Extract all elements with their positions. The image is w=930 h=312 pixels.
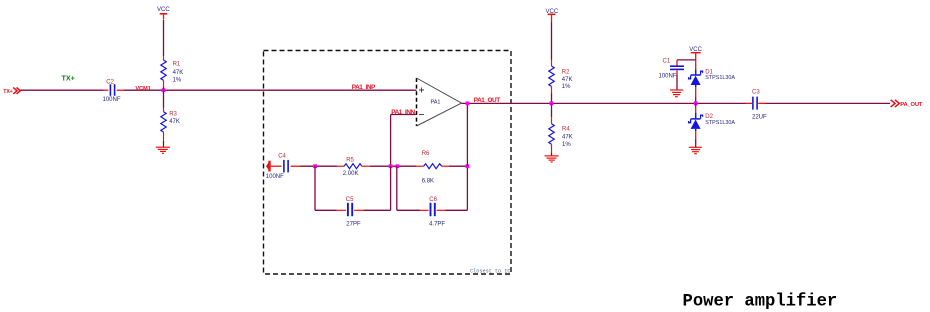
svg-text:4.7PF: 4.7PF <box>429 221 445 227</box>
svg-text:C6: C6 <box>429 197 437 203</box>
svg-text:Power amplifier: Power amplifier <box>683 292 838 311</box>
port TX+ <box>3 88 20 96</box>
capacitor C1 <box>659 59 696 90</box>
divider dashed box <box>264 51 512 275</box>
svg-text:C2: C2 <box>106 80 114 86</box>
svg-text:TX+: TX+ <box>62 74 75 83</box>
capacitor C2 <box>103 80 121 104</box>
svg-text:PA1: PA1 <box>431 100 441 106</box>
node C (R6/C6 right) <box>466 164 470 168</box>
port C4 input (off-page) <box>266 161 271 172</box>
svg-text:R4: R4 <box>562 126 570 132</box>
svg-text:PA_OUT: PA_OUT <box>900 102 923 108</box>
svg-text:22UF: 22UF <box>752 115 767 121</box>
ground below R3 <box>156 147 170 153</box>
svg-text:R5: R5 <box>346 157 354 163</box>
wire output rail <box>462 103 891 166</box>
node output (PA1 out) <box>466 101 470 105</box>
capacitor C4 <box>266 154 301 180</box>
svg-text:100NF: 100NF <box>659 73 677 79</box>
capacitor C5 loop <box>315 166 391 227</box>
node VCM1 junction <box>162 88 166 92</box>
ground below R4 <box>545 156 559 162</box>
wire PA1_INN feedback <box>391 115 417 167</box>
svg-text:R6: R6 <box>422 151 430 157</box>
resistor R5 <box>337 157 370 177</box>
svg-text:C5: C5 <box>346 197 354 203</box>
svg-text:R3: R3 <box>169 112 177 118</box>
port PA_OUT <box>891 100 923 108</box>
svg-text:C4: C4 <box>278 154 286 160</box>
resistor R3 <box>161 90 180 147</box>
svg-text:47K: 47K <box>169 119 180 125</box>
resistor R6 <box>416 151 449 184</box>
svg-text:47K: 47K <box>173 70 184 76</box>
svg-text:C3: C3 <box>752 89 760 95</box>
svg-text:27PF: 27PF <box>346 221 361 227</box>
svg-text:R2: R2 <box>562 69 570 75</box>
node A (C4/R5/C5) <box>313 164 317 168</box>
svg-text:C1: C1 <box>663 59 671 65</box>
svg-text:STPS1L30A: STPS1L30A <box>705 120 735 126</box>
resistor R1 <box>161 56 183 90</box>
diode D1 <box>689 60 736 103</box>
power VCC (R2 branch) <box>546 9 559 60</box>
capacitor C3 <box>752 89 767 120</box>
wire feedback rail <box>301 165 468 167</box>
node diode clamp on output rail <box>694 101 698 105</box>
svg-text:1%: 1% <box>562 142 571 148</box>
capacitor C6 loop <box>397 166 468 227</box>
node R2-R4 on output rail <box>550 101 554 105</box>
power VCC (left) <box>157 7 170 56</box>
svg-text:1%: 1% <box>562 84 571 90</box>
svg-text:R1: R1 <box>173 61 181 67</box>
svg-text:PA1_OUT: PA1_OUT <box>474 97 500 104</box>
svg-text:Closest to IC: Closest to IC <box>470 268 510 274</box>
resistor R2 <box>549 60 573 104</box>
svg-text:6.8K: 6.8K <box>422 179 434 185</box>
svg-text:VCC: VCC <box>157 7 170 13</box>
svg-text:100NF: 100NF <box>266 174 284 180</box>
svg-text:TX+: TX+ <box>3 89 12 95</box>
svg-text:100NF: 100NF <box>103 97 121 103</box>
wire input rail <box>20 89 416 91</box>
svg-text:1%: 1% <box>173 77 182 83</box>
svg-text:VCM1: VCM1 <box>135 86 151 92</box>
svg-text:47K: 47K <box>562 135 573 141</box>
node B2 (R6/C6 left) <box>396 164 400 168</box>
ground below C1 <box>670 90 683 97</box>
svg-text:PA1_INP: PA1_INP <box>352 84 376 91</box>
diode D2 <box>689 103 736 147</box>
svg-text:2.00K: 2.00K <box>343 171 359 177</box>
resistor R4 <box>549 103 573 156</box>
node B (R5/C5/INN) <box>389 164 393 168</box>
power VCC (C1/D1) <box>689 47 702 60</box>
svg-text:47K: 47K <box>562 77 573 83</box>
ground below D2 <box>689 147 702 153</box>
op-amp PA1 <box>417 78 462 126</box>
svg-text:STPS1L30A: STPS1L30A <box>705 75 735 81</box>
